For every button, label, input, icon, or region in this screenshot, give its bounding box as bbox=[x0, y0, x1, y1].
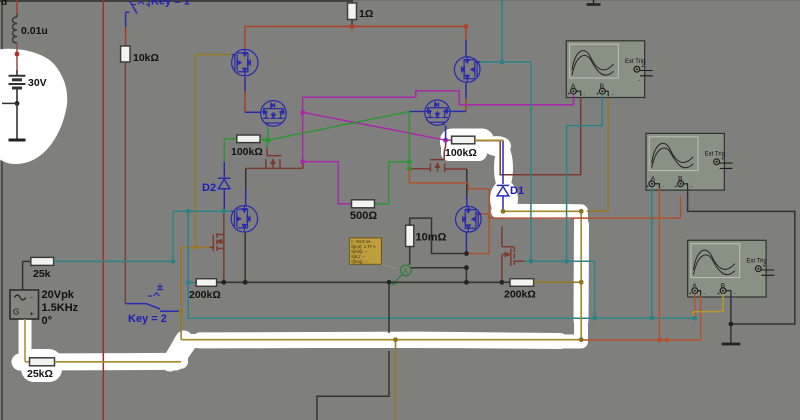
node teal top drop bbox=[500, 60, 505, 65]
wire switch to 10k resistor bbox=[125, 12, 127, 46]
wire Q4 gate lead bbox=[409, 111, 425, 113]
transistor Q7 (bottom left, circled MOSFET) bbox=[231, 206, 257, 232]
wire 100k left to D2 bbox=[223, 139, 225, 178]
node tan switch junction bbox=[179, 309, 184, 314]
svg-text:10mΩ: 10mΩ bbox=[416, 232, 447, 244]
highlight stroke along selected source wire (bottom run) bbox=[20, 211, 582, 364]
svg-text:1Ω: 1Ω bbox=[359, 8, 373, 20]
resistor R8 10mOhm bbox=[406, 225, 414, 265]
svg-text:100kΩ: 100kΩ bbox=[231, 146, 263, 158]
wire battery top feed bbox=[16, 0, 18, 14]
highlight blob around resistor R4 25k and its label bbox=[21, 349, 62, 382]
switch S2 Key = 2 bbox=[125, 284, 181, 311]
node green at 100k left bbox=[266, 138, 271, 143]
node bus Q9 bbox=[221, 280, 226, 285]
svg-text:+: + bbox=[689, 291, 692, 297]
node teal at 200k left bbox=[186, 280, 191, 285]
svg-text:-: - bbox=[662, 184, 664, 190]
svg-text:D1: D1 bbox=[510, 185, 524, 197]
highlight blob around battery V1 bbox=[0, 49, 67, 164]
node black scope3 ground tee bbox=[729, 322, 734, 327]
label R8 value bbox=[416, 232, 447, 244]
resistor R5 100kOhm left bbox=[224, 135, 268, 143]
svg-text:-: - bbox=[612, 92, 614, 98]
wire scope2 A plus teal drop bbox=[651, 187, 653, 319]
transistor Q5 (left cascode, bare MOSFET) bbox=[246, 148, 303, 168]
node teal corner join bbox=[592, 316, 597, 321]
node bus right corner bbox=[464, 24, 469, 29]
wire Q6 drain to Q8 drain bbox=[466, 169, 468, 206]
tooltip probe readout box bbox=[349, 238, 381, 264]
transistor Q3 (mid left, circled MOSFET rotated) bbox=[261, 101, 287, 127]
diode D2 bbox=[218, 178, 231, 211]
label R9 value bbox=[189, 289, 221, 301]
svg-text:-: - bbox=[734, 291, 736, 297]
svg-text:+: + bbox=[596, 92, 599, 98]
svg-text:+: + bbox=[641, 64, 644, 70]
sheet border top edge bbox=[0, 0, 800, 2]
svg-text:+: + bbox=[646, 184, 649, 190]
wire orange Q6 source branch bbox=[409, 169, 489, 254]
label V1 value bbox=[28, 77, 47, 89]
resistor R1 1Ohm bbox=[348, 0, 357, 27]
wire scope2 B minus black run to right edge bbox=[688, 189, 795, 324]
wire tan gate rail (Q1 gate to Q5 gate) bbox=[181, 55, 231, 248]
node bus drop bbox=[387, 280, 392, 285]
wire Q8 source to sense node bbox=[465, 232, 467, 253]
wire black 10m bottom to bus bbox=[410, 268, 467, 283]
label R2 value bbox=[133, 52, 159, 64]
resistor R9 200kOhm left bbox=[196, 279, 216, 287]
ground top center bbox=[587, 0, 601, 5]
wire black main bottom bus bbox=[217, 281, 502, 283]
svg-text:0.01u: 0.01u bbox=[21, 25, 48, 37]
label D1 bbox=[510, 185, 524, 197]
wire Q7 source to bus bbox=[244, 232, 246, 282]
node orange scope2 A minus join bbox=[657, 338, 662, 343]
inductor L1 0.01u bbox=[13, 14, 18, 43]
svg-text:+: + bbox=[567, 92, 570, 98]
label L1 value bbox=[21, 25, 48, 37]
svg-text:-: - bbox=[638, 78, 640, 84]
node black sense lower tee bbox=[464, 265, 469, 270]
svg-text:+: + bbox=[30, 309, 35, 318]
node tan gate tee bbox=[193, 245, 198, 250]
node tan at 200k right bbox=[579, 280, 584, 285]
ground GND battery bbox=[9, 139, 26, 142]
svg-text:Key = 2: Key = 2 bbox=[128, 313, 167, 325]
svg-text:200kΩ: 200kΩ bbox=[504, 289, 536, 301]
highlight blob around resistor R-100k right and diode D1 bbox=[440, 129, 518, 219]
svg-text:I(freq): --: I(freq): -- bbox=[351, 259, 368, 264]
wire scope3 A minus red drop to orange rail bbox=[700, 296, 702, 341]
node teal scope1 B join bbox=[564, 259, 569, 264]
wire inductor to battery bbox=[16, 43, 18, 70]
svg-text:500Ω: 500Ω bbox=[350, 210, 377, 222]
label XFG1 values bbox=[42, 289, 79, 327]
svg-text:G: G bbox=[13, 308, 19, 317]
node bus 200k right bbox=[500, 280, 505, 285]
wire long dark rail from 10k down bbox=[124, 62, 126, 304]
svg-text:30V: 30V bbox=[28, 77, 47, 89]
svg-text:-: - bbox=[584, 92, 586, 98]
node teal scope2 A join bbox=[649, 316, 654, 321]
wire 25k left down to generator bbox=[22, 261, 24, 290]
wire generator bottom to 25kOhm (highlighted) bbox=[25, 319, 30, 362]
label R6 value bbox=[350, 210, 377, 222]
node tan right rail top bbox=[579, 209, 584, 214]
function generator XFG1 bbox=[10, 290, 39, 319]
node 1Ohm on bus bbox=[350, 24, 355, 29]
resistor R2 10kOhm bbox=[121, 46, 130, 62]
label R1 value bbox=[359, 8, 373, 20]
wire brown 100k right to scope1 A minus bbox=[475, 98, 581, 175]
diode D1 bbox=[497, 185, 510, 211]
switch S1 Key = 1 bbox=[126, 1, 149, 14]
wire D1 top feed (highlighted) bbox=[502, 140, 504, 184]
resistor R10 200kOhm right bbox=[502, 279, 581, 287]
svg-text:D2: D2 bbox=[202, 182, 216, 194]
node magenta at Q3 drain bbox=[300, 110, 305, 115]
svg-text:d: d bbox=[1, 0, 7, 8]
svg-text:10kΩ: 10kΩ bbox=[133, 52, 159, 64]
wire Q8 gate to orange scope2 B plus net bbox=[481, 197, 681, 219]
label R7 value bbox=[445, 147, 477, 159]
wire battery minus to sheet edge bbox=[2, 102, 17, 104]
label D2 bbox=[202, 182, 216, 194]
transistor Q10 (bottom right cascode, bare MOSFET rotated) bbox=[502, 226, 525, 282]
wire magenta cross-coupled net bbox=[303, 91, 574, 204]
node battery minus junction bbox=[15, 101, 20, 106]
oscilloscope XSC2 bbox=[646, 133, 733, 190]
wire scope1 B plus teal drop bbox=[567, 94, 603, 261]
wire teal D2 node rail bbox=[54, 211, 695, 318]
node bus sense bbox=[464, 280, 469, 285]
label top-left cut text bbox=[1, 0, 7, 8]
battery V1 30V bbox=[9, 70, 26, 103]
node orange stub join bbox=[664, 338, 669, 343]
sheet border left edge bbox=[1, 0, 3, 420]
svg-text:25k: 25k bbox=[33, 268, 51, 280]
wire Q2 source down and over to Q4 bbox=[450, 82, 466, 111]
oscilloscope XSC3 bbox=[688, 240, 775, 297]
svg-text:Key = 1: Key = 1 bbox=[151, 0, 190, 8]
wire red top bus bbox=[245, 26, 466, 28]
node battery plus (red junction) bbox=[15, 52, 20, 57]
wire teal Q10 source rail bbox=[525, 62, 595, 318]
node tan D1 junction bbox=[501, 209, 506, 214]
wire scope3 A plus red drop bbox=[694, 294, 696, 319]
svg-text:+: + bbox=[762, 264, 765, 270]
resistor R7 100kOhm right (highlighted) bbox=[446, 136, 475, 144]
ground GND scope3 bbox=[722, 343, 741, 346]
node teal D2 tee bbox=[186, 209, 191, 214]
node tan bottom corner bbox=[579, 337, 584, 342]
svg-text:+: + bbox=[717, 291, 720, 297]
wire scope3 B minus black to ground bbox=[730, 296, 732, 344]
svg-text:0°: 0° bbox=[42, 315, 53, 327]
label S1 Key = 1 bbox=[151, 0, 190, 8]
svg-text:20Vpk: 20Vpk bbox=[42, 289, 75, 301]
label R10 value bbox=[504, 289, 536, 301]
svg-text:-: - bbox=[704, 291, 706, 297]
svg-text:-: - bbox=[691, 184, 693, 190]
node sense black tee bbox=[464, 251, 469, 256]
svg-text:+: + bbox=[674, 184, 677, 190]
resistor R6 500Ohm bbox=[352, 200, 375, 208]
wire tan highlighted run D1 to bottom bbox=[55, 140, 582, 361]
node teal end at scope3 A bbox=[692, 316, 697, 321]
wire Q5 source to Q7 drain bbox=[245, 168, 247, 205]
wire green cross-coupled net bbox=[262, 112, 409, 204]
wire long red rail x=103 bbox=[102, 0, 104, 420]
label R5 value bbox=[231, 146, 263, 158]
wire tan switch branch down bbox=[180, 248, 182, 340]
svg-text:200kΩ: 200kΩ bbox=[189, 289, 221, 301]
wire Q4 source drop to 100k right bbox=[445, 125, 447, 140]
wire scope2 A minus red drop bbox=[658, 189, 660, 340]
svg-text:100kΩ: 100kΩ bbox=[445, 147, 477, 159]
oscilloscope XSC1 bbox=[566, 41, 653, 98]
node green lower tee bbox=[407, 166, 412, 171]
svg-text:A: A bbox=[403, 267, 409, 276]
wire Q1 source down and over to Q3 bbox=[245, 77, 261, 112]
transistor Q1 (top left, circled MOSFET) bbox=[232, 49, 258, 75]
resistor R3 25k bbox=[23, 257, 54, 265]
wire scope1 A plus magenta drop bbox=[572, 94, 574, 105]
svg-text:+: + bbox=[721, 157, 724, 163]
transistor Q8 (bottom right, circled MOSFET, mirrored) bbox=[456, 206, 482, 232]
transistor Q6 (right cascode, bare MOSFET) bbox=[409, 140, 467, 172]
wire bus down to Q2 drain bbox=[465, 27, 467, 58]
node magenta at 100k right bbox=[443, 138, 448, 143]
wire battery minus down to ground bbox=[16, 103, 18, 139]
svg-text:1.5KHz: 1.5KHz bbox=[42, 302, 79, 314]
ammeter probe A bbox=[382, 264, 412, 286]
wire black bus drop to bottom edge bbox=[317, 282, 389, 420]
resistor R4 25kOhm (highlighted) bbox=[30, 358, 55, 366]
transistor Q4 (mid right, circled MOSFET rotated mirrored) bbox=[425, 100, 450, 125]
wire tan drop to sheet bottom bbox=[395, 340, 397, 420]
node green upper tee bbox=[407, 159, 412, 164]
node bus Q7 bbox=[243, 280, 248, 285]
transistor Q9 (bottom left cascode, bare MOSFET rotated) bbox=[210, 211, 224, 282]
wire black sense node to 10m resistor top bbox=[410, 218, 467, 253]
wire orange bottom rail bbox=[583, 339, 701, 341]
label S2 Key = 2 bbox=[128, 313, 167, 325]
node teal 25k corner bbox=[171, 259, 176, 264]
label R4 value bbox=[27, 368, 53, 380]
wire tan D1 node to scope1 B minus bbox=[587, 98, 609, 212]
wire teal Q2 gate lead bbox=[480, 0, 531, 62]
node tan stub drop bbox=[393, 337, 398, 342]
svg-text:25kΩ: 25kΩ bbox=[27, 368, 53, 380]
node teal at Q9 drain bbox=[222, 209, 227, 214]
transistor Q2 (top right, circled MOSFET, mirrored) bbox=[454, 57, 480, 83]
label R3 value bbox=[33, 268, 51, 280]
wire bus down to Q1 drain bbox=[244, 27, 246, 50]
wire scope3 B plus yellow elbow bbox=[694, 294, 724, 316]
node teal Q2 gate rail join bbox=[529, 259, 534, 264]
node magenta lower tee bbox=[300, 159, 305, 164]
